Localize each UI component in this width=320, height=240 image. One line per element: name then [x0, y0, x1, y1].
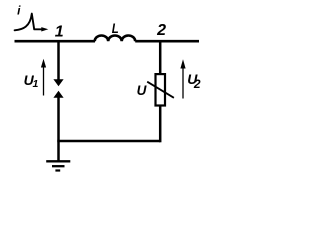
- voltage arrow U2 : shaft: [182, 67, 184, 99]
- impulse current i : surge waveform curve: [15, 14, 43, 31]
- wire : spark gap to ground: [57, 97, 60, 161]
- ground : bar 1: [46, 160, 70, 162]
- wire : varistor to bottom bus: [159, 106, 162, 143]
- wire : top bus, left segment: [15, 40, 96, 43]
- svg-text:U: U: [137, 83, 148, 98]
- svg-text:2: 2: [193, 77, 201, 91]
- inductor L : coil: [95, 36, 136, 42]
- ground : bar 3: [55, 169, 60, 171]
- spark gap : lower (upward) arrowhead: [53, 91, 63, 98]
- varistor U : diagonal stroke: [147, 82, 174, 98]
- svg-text:2: 2: [156, 22, 166, 39]
- svg-text:1: 1: [33, 78, 39, 90]
- svg-text:1: 1: [55, 23, 64, 40]
- wire : node 1 drop to spark gap: [57, 40, 60, 80]
- svg-text:L: L: [112, 20, 119, 36]
- ground : bar 2: [52, 165, 65, 167]
- wire : node 2 drop to varistor: [159, 40, 162, 75]
- voltage arrow U2 : arrowhead: [180, 59, 185, 68]
- impulse current i : arrowhead: [41, 27, 48, 31]
- voltage arrow U1 : arrowhead: [41, 59, 46, 68]
- wire : top bus, right segment: [135, 40, 199, 43]
- voltage arrow U1 : shaft: [43, 66, 45, 96]
- wire : bottom bus: [57, 140, 160, 143]
- varistor U : body: [156, 74, 166, 105]
- spark gap : upper (downward) arrowhead: [53, 79, 63, 86]
